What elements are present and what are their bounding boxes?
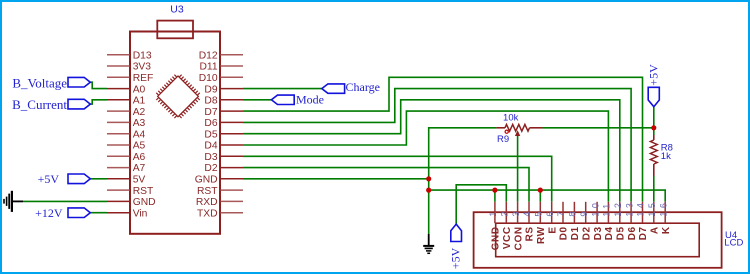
svg-text:+5V: +5V <box>646 64 660 86</box>
svg-text:A3: A3 <box>133 118 146 129</box>
svg-text:5V: 5V <box>133 175 146 186</box>
svg-text:A7: A7 <box>133 163 146 174</box>
svg-text:15: 15 <box>647 200 657 217</box>
svg-text:E: E <box>547 226 558 233</box>
svg-text:+5V: +5V <box>38 172 60 186</box>
svg-text:Mode: Mode <box>296 92 324 106</box>
svg-text:A6: A6 <box>133 152 146 163</box>
svg-text:RS: RS <box>525 226 536 241</box>
svg-text:A0: A0 <box>133 84 146 95</box>
svg-text:3V3: 3V3 <box>133 62 152 73</box>
svg-text:D4: D4 <box>204 141 217 152</box>
svg-text:D7: D7 <box>638 226 649 240</box>
svg-text:D6: D6 <box>627 226 638 240</box>
svg-text:RXD: RXD <box>196 197 218 208</box>
svg-text:4: 4 <box>522 208 532 217</box>
svg-text:GND: GND <box>491 226 502 250</box>
svg-text:RST: RST <box>133 186 154 197</box>
svg-text:1k: 1k <box>661 151 671 162</box>
svg-text:10: 10 <box>590 200 600 217</box>
svg-text:9: 9 <box>579 208 589 217</box>
svg-text:10k: 10k <box>503 112 519 123</box>
svg-text:16: 16 <box>658 200 668 217</box>
svg-text:D0: D0 <box>559 226 570 240</box>
svg-text:D4: D4 <box>604 226 615 240</box>
svg-text:K: K <box>661 226 672 234</box>
svg-text:VCC: VCC <box>502 226 513 249</box>
svg-text:2: 2 <box>500 208 510 217</box>
svg-text:D9: D9 <box>204 84 217 95</box>
svg-text:U3: U3 <box>170 3 184 15</box>
svg-text:D3: D3 <box>204 152 217 163</box>
svg-text:D2: D2 <box>581 226 592 240</box>
svg-text:REF: REF <box>133 73 154 84</box>
svg-text:B_Voltage: B_Voltage <box>12 75 67 90</box>
svg-text:D1: D1 <box>570 226 581 240</box>
svg-text:A: A <box>650 226 661 234</box>
svg-text:3: 3 <box>511 208 521 217</box>
svg-text:D10: D10 <box>199 73 218 84</box>
svg-text:D3: D3 <box>593 226 604 240</box>
svg-text:13: 13 <box>624 200 634 217</box>
svg-text:12: 12 <box>613 200 623 217</box>
svg-text:14: 14 <box>636 200 646 217</box>
svg-text:D12: D12 <box>199 50 218 61</box>
svg-text:5: 5 <box>534 208 544 217</box>
svg-text:1: 1 <box>488 208 498 217</box>
svg-text:GND: GND <box>195 175 218 186</box>
svg-text:R9: R9 <box>497 134 509 145</box>
svg-text:Charge: Charge <box>346 80 380 94</box>
svg-text:RW: RW <box>536 226 547 244</box>
svg-text:+12V: +12V <box>35 206 63 220</box>
svg-text:7: 7 <box>556 208 566 217</box>
svg-text:+5V: +5V <box>449 247 463 269</box>
svg-text:D8: D8 <box>204 96 217 107</box>
svg-text:D11: D11 <box>199 62 217 73</box>
svg-text:D5: D5 <box>204 129 217 140</box>
svg-text:D6: D6 <box>204 118 217 129</box>
svg-text:CON: CON <box>513 226 524 250</box>
svg-text:Vin: Vin <box>133 208 148 219</box>
svg-text:A5: A5 <box>133 141 146 152</box>
svg-text:D2: D2 <box>204 163 217 174</box>
svg-text:A2: A2 <box>133 107 146 118</box>
svg-text:D5: D5 <box>616 226 627 240</box>
svg-text:8: 8 <box>568 208 578 217</box>
svg-text:11: 11 <box>602 200 612 216</box>
svg-text:D13: D13 <box>133 50 152 61</box>
svg-text:D7: D7 <box>204 107 217 118</box>
svg-text:B_Current: B_Current <box>12 97 67 112</box>
svg-text:A4: A4 <box>133 129 146 140</box>
svg-text:TXD: TXD <box>197 208 218 219</box>
svg-text:LCD: LCD <box>724 238 743 249</box>
svg-text:RST: RST <box>197 186 218 197</box>
svg-text:6: 6 <box>545 208 555 217</box>
svg-text:A1: A1 <box>133 96 146 107</box>
svg-text:GND: GND <box>133 197 156 208</box>
